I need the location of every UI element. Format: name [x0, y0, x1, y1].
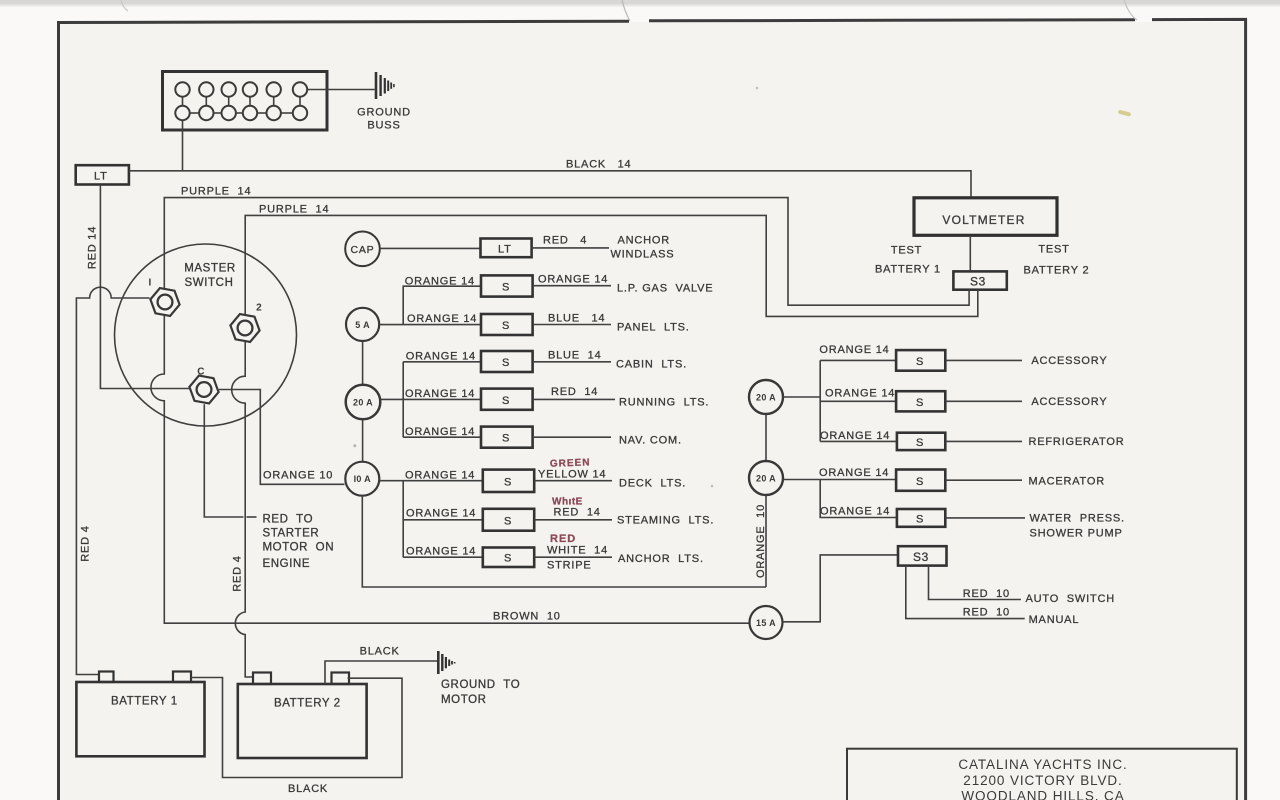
switch S (refrigerator): [897, 433, 945, 450]
fuse 15A: [750, 606, 783, 639]
svg-text:STARTER: STARTER: [263, 528, 320, 540]
wire out anchor lts: [534, 556, 612, 558]
svg-text:20 A: 20 A: [756, 392, 776, 402]
stain right: [1118, 110, 1132, 117]
fuse 20A (right lower): [749, 461, 783, 495]
svg-text:I0 A: I0 A: [354, 474, 372, 484]
svg-text:C: C: [197, 367, 205, 378]
wire CAP to LT: [380, 247, 481, 249]
master switch circle: [115, 244, 297, 426]
switch S (water press): [897, 509, 945, 527]
terminal 2 of master switch: [230, 314, 259, 342]
svg-text:WHITE 14: WHITE 14: [547, 545, 608, 557]
ground buss terminals top row: [175, 82, 307, 96]
svg-text:TEST: TEST: [891, 245, 922, 257]
svg-text:ORANGE 14: ORANGE 14: [825, 388, 895, 400]
battery 1 right terminal: [173, 672, 191, 683]
battery 2 right terminal: [332, 673, 350, 685]
svg-text:BUSS: BUSS: [367, 120, 400, 132]
svg-text:S: S: [502, 395, 510, 407]
wire 20A feed right upper: [783, 396, 820, 398]
wire out panel lts: [533, 324, 611, 326]
svg-text:BLACK: BLACK: [360, 646, 400, 658]
svg-text:ORANGE 14: ORANGE 14: [405, 388, 475, 400]
svg-text:ORANGE 10: ORANGE 10: [755, 504, 767, 578]
wire 5A feed to panel lts row: [379, 324, 481, 326]
svg-text:BATTERY 1: BATTERY 1: [875, 264, 941, 276]
svg-text:20 A: 20 A: [353, 397, 373, 407]
speck: [756, 87, 759, 90]
svg-text:RED 4: RED 4: [79, 525, 91, 561]
tick starter label: [247, 516, 257, 518]
svg-text:RED 10: RED 10: [963, 588, 1010, 600]
speck: [353, 444, 356, 447]
wire RED 14 (LT to terminal C): [100, 185, 189, 389]
battery 1 left terminal: [99, 672, 114, 683]
svg-text:WINDLASS: WINDLASS: [611, 249, 675, 261]
svg-text:SWITCH: SWITCH: [185, 277, 234, 289]
svg-text:RED 4: RED 4: [232, 555, 244, 591]
svg-text:ANCHOR LTS.: ANCHOR LTS.: [618, 553, 704, 565]
svg-text:20 A: 20 A: [756, 473, 776, 483]
svg-text:ORANGE 14: ORANGE 14: [820, 506, 890, 518]
switch S (macerator): [896, 470, 945, 491]
wire out accessory 2: [945, 400, 1022, 402]
wire out cabin lts: [533, 361, 611, 363]
svg-text:21200 VICTORY BLVD.: 21200 VICTORY BLVD.: [963, 773, 1122, 788]
wire 20A lower down to orange 10 bus: [765, 495, 767, 587]
wire PURPLE 14 (terminal 1 to S3): [164, 198, 969, 306]
scratch artifact top right: [1124, 0, 1137, 20]
node bus 5A group: [403, 286, 481, 324]
voltmeter U1: [914, 198, 1057, 236]
node bus 10A group: [403, 481, 483, 558]
title block box: [847, 749, 1237, 800]
svg-text:ORANGE 14: ORANGE 14: [406, 546, 476, 558]
svg-text:ORANGE 14: ORANGE 14: [405, 426, 475, 438]
svg-text:TEST: TEST: [1038, 244, 1069, 256]
svg-text:S3: S3: [913, 550, 929, 564]
svg-text:ORANGE 10: ORANGE 10: [263, 470, 333, 482]
wire RED 4 battery 1 to terminal 1 (with hop over RED 14): [76, 287, 149, 674]
svg-text:GROUND: GROUND: [357, 107, 411, 119]
svg-text:S: S: [502, 357, 510, 369]
svg-text:15 A: 15 A: [756, 618, 776, 628]
svg-text:S: S: [916, 356, 924, 368]
svg-text:CAP: CAP: [351, 244, 375, 256]
wire 20A feed to running lts row: [380, 398, 481, 400]
svg-text:MOTOR ON: MOTOR ON: [263, 542, 335, 554]
ground buss box: [163, 72, 328, 131]
switch S (deck lts): [483, 470, 534, 492]
svg-text:CATALINA YACHTS INC.: CATALINA YACHTS INC.: [958, 757, 1127, 772]
node bus macerator group: [820, 480, 897, 518]
scratch artifact top left: [121, 0, 128, 11]
svg-text:REFRIGERATOR: REFRIGERATOR: [1029, 436, 1125, 448]
svg-text:MANUAL: MANUAL: [1029, 614, 1080, 626]
wire S3 to manual: [906, 566, 1025, 619]
panel light LT box (left): [76, 165, 129, 184]
wire PURPLE 14 (terminal 2 to S3): [245, 215, 978, 316]
svg-text:S: S: [916, 476, 924, 488]
fuse 10A: [345, 462, 379, 496]
switch S (panel lts): [481, 314, 533, 335]
scan gray strip top: [0, 0, 1280, 5]
switch S3 (battery test): [953, 271, 1006, 289]
switch S (L.P. gas valve): [481, 275, 533, 296]
svg-text:WATER PRESS.: WATER PRESS.: [1030, 513, 1125, 525]
wire accessory 2 row: [820, 400, 896, 402]
node bus accessory group: [820, 360, 897, 441]
svg-text:YELLOW 14: YELLOW 14: [538, 469, 606, 481]
windlass switch LT box: [481, 239, 532, 258]
svg-text:S: S: [504, 515, 512, 527]
ground buss terminals bottom row: [175, 106, 307, 120]
wire terminal 1 down to BROWN 10 (hops over RED wire): [151, 316, 750, 623]
svg-text:ORANGE 14: ORANGE 14: [819, 344, 889, 356]
ground buss internal links: [183, 97, 301, 113]
wire out steaming lts: [534, 519, 612, 521]
switch S (steaming lts): [483, 509, 534, 531]
svg-text:ORANGE 14: ORANGE 14: [405, 470, 475, 482]
wire 20A to 20A link (right): [765, 414, 767, 461]
switch S (anchor lts): [483, 548, 534, 568]
svg-text:2: 2: [256, 303, 262, 314]
wire voltmeter to switch S3: [969, 235, 971, 271]
scratch artifact top middle: [622, 0, 630, 21]
svg-text:MOTOR: MOTOR: [441, 694, 487, 706]
wire buss to chassis ground: [307, 89, 374, 91]
svg-text:BLACK: BLACK: [288, 783, 328, 795]
switch S (accessory 2): [896, 391, 945, 411]
svg-text:STRIPE: STRIPE: [547, 560, 592, 572]
svg-text:S: S: [916, 397, 924, 409]
wire out gas valve: [533, 285, 611, 287]
fuse 5A: [346, 308, 379, 341]
wire S3 to auto switch: [929, 566, 1021, 600]
svg-text:STEAMING LTS.: STEAMING LTS.: [617, 515, 714, 527]
wire out refrigerator: [945, 440, 1022, 442]
wire terminal C to starter label: [204, 404, 243, 517]
switch S3 (bilge): [898, 546, 947, 565]
svg-text:BLACK 14: BLACK 14: [566, 159, 631, 171]
svg-text:S3: S3: [970, 274, 986, 288]
svg-text:RED TO: RED TO: [263, 514, 314, 526]
svg-text:NAV. COM.: NAV. COM.: [619, 435, 682, 447]
wire black battery 2 to motor ground: [325, 661, 437, 684]
terminal C of master switch: [189, 376, 218, 404]
battery 2 left terminal: [253, 673, 271, 685]
svg-text:LT: LT: [94, 171, 108, 183]
fuse 20A: [346, 385, 381, 420]
svg-text:RED 10: RED 10: [963, 607, 1010, 619]
node bus 20A group: [403, 362, 481, 437]
svg-text:ENGINE: ENGINE: [263, 558, 311, 570]
svg-text:L.P. GAS VALVE: L.P. GAS VALVE: [617, 283, 713, 295]
wire 20A lower feed / macerator row: [783, 479, 896, 481]
wire buss down to black bus: [182, 120, 184, 171]
wire 15A to S3 bilge: [783, 555, 899, 622]
svg-text:ORANGE 14: ORANGE 14: [820, 430, 890, 442]
svg-text:5 A: 5 A: [355, 320, 370, 330]
svg-text:VOLTMETER: VOLTMETER: [942, 213, 1025, 227]
wire out accessory 1: [945, 359, 1022, 361]
battery 2 box: [238, 684, 367, 758]
wire out nav com: [533, 436, 611, 438]
svg-text:S: S: [502, 433, 510, 445]
svg-text:RED 4: RED 4: [543, 235, 587, 247]
svg-text:DECK LTS.: DECK LTS.: [619, 478, 686, 490]
wire LT to anchor windlass: [532, 247, 609, 249]
svg-text:ACCESSORY: ACCESSORY: [1031, 396, 1107, 408]
wire 20A to 10A: [362, 419, 364, 461]
svg-text:GROUND TO: GROUND TO: [441, 679, 520, 691]
switch S (cabin lts): [481, 351, 533, 372]
svg-text:S: S: [916, 437, 924, 449]
svg-text:CABIN LTS.: CABIN LTS.: [616, 359, 687, 371]
wire out macerator: [945, 479, 1022, 481]
wire out deck lts: [534, 480, 612, 482]
svg-text:ORANGE 14: ORANGE 14: [819, 467, 889, 479]
svg-text:RED 14: RED 14: [87, 226, 99, 269]
svg-text:WOODLAND HILLS, CA: WOODLAND HILLS, CA: [961, 789, 1124, 800]
svg-text:I: I: [148, 278, 151, 289]
svg-text:ORANGE 14: ORANGE 14: [538, 274, 608, 286]
wire terminal 2 down to battery 2 (hops over C wire and BROWN 10): [232, 341, 254, 677]
svg-text:RED 14: RED 14: [554, 507, 601, 519]
svg-text:ANCHOR: ANCHOR: [618, 234, 670, 246]
svg-text:S: S: [502, 320, 510, 332]
svg-text:RED: RED: [550, 533, 576, 545]
svg-text:BATTERY 2: BATTERY 2: [274, 698, 341, 710]
svg-text:MASTER: MASTER: [184, 263, 236, 275]
chassis ground symbol (motor): [438, 651, 454, 674]
switch S (nav com): [481, 427, 533, 448]
svg-text:BATTERY 2: BATTERY 2: [1024, 265, 1090, 277]
wire 5A to 20A: [362, 341, 364, 385]
svg-text:ORANGE 14: ORANGE 14: [406, 508, 476, 520]
wire out running lts: [533, 398, 615, 400]
svg-text:S: S: [504, 553, 512, 565]
svg-text:MACERATOR: MACERATOR: [1029, 476, 1105, 488]
svg-text:PURPLE 14: PURPLE 14: [181, 186, 251, 198]
terminal 1 of master switch: [150, 288, 179, 316]
svg-text:ORANGE 14: ORANGE 14: [407, 313, 477, 325]
svg-text:ORANGE 14: ORANGE 14: [406, 351, 476, 363]
wire 10A feed to deck lts row: [379, 480, 483, 482]
svg-text:BROWN 10: BROWN 10: [493, 611, 561, 623]
wire black jumper battery 1 to battery 2: [191, 678, 402, 778]
switch S (accessory 1): [896, 350, 945, 371]
svg-text:BATTERY 1: BATTERY 1: [111, 696, 178, 708]
wire terminal C right to ORANGE 10: [219, 390, 345, 485]
svg-text:AUTO SWITCH: AUTO SWITCH: [1026, 593, 1115, 605]
wire 10A down and right to orange 10 riser: [362, 496, 766, 587]
svg-text:BLUE 14: BLUE 14: [548, 350, 601, 362]
svg-text:LT: LT: [498, 244, 512, 256]
svg-text:SHOWER PUMP: SHOWER PUMP: [1030, 528, 1123, 540]
svg-text:S: S: [502, 282, 510, 294]
svg-text:S: S: [916, 513, 924, 525]
wire out water press: [945, 517, 1025, 519]
svg-text:S: S: [504, 477, 512, 489]
cap terminal CAP: [345, 232, 380, 267]
svg-text:ORANGE 14: ORANGE 14: [405, 276, 475, 288]
speck: [711, 485, 714, 488]
fuse 20A (right upper): [749, 380, 783, 414]
wire BLACK 14 to voltmeter: [129, 171, 971, 198]
svg-text:PURPLE 14: PURPLE 14: [259, 204, 329, 216]
battery 1 box: [76, 682, 204, 756]
chassis ground symbol (buss): [376, 72, 394, 99]
svg-text:BLUE 14: BLUE 14: [548, 313, 605, 325]
svg-text:PANEL LTS.: PANEL LTS.: [617, 322, 690, 334]
switch S (running lts): [481, 389, 533, 410]
svg-text:RED 14: RED 14: [551, 386, 598, 398]
svg-text:RUNNING LTS.: RUNNING LTS.: [619, 397, 709, 409]
svg-text:ACCESSORY: ACCESSORY: [1031, 355, 1107, 367]
